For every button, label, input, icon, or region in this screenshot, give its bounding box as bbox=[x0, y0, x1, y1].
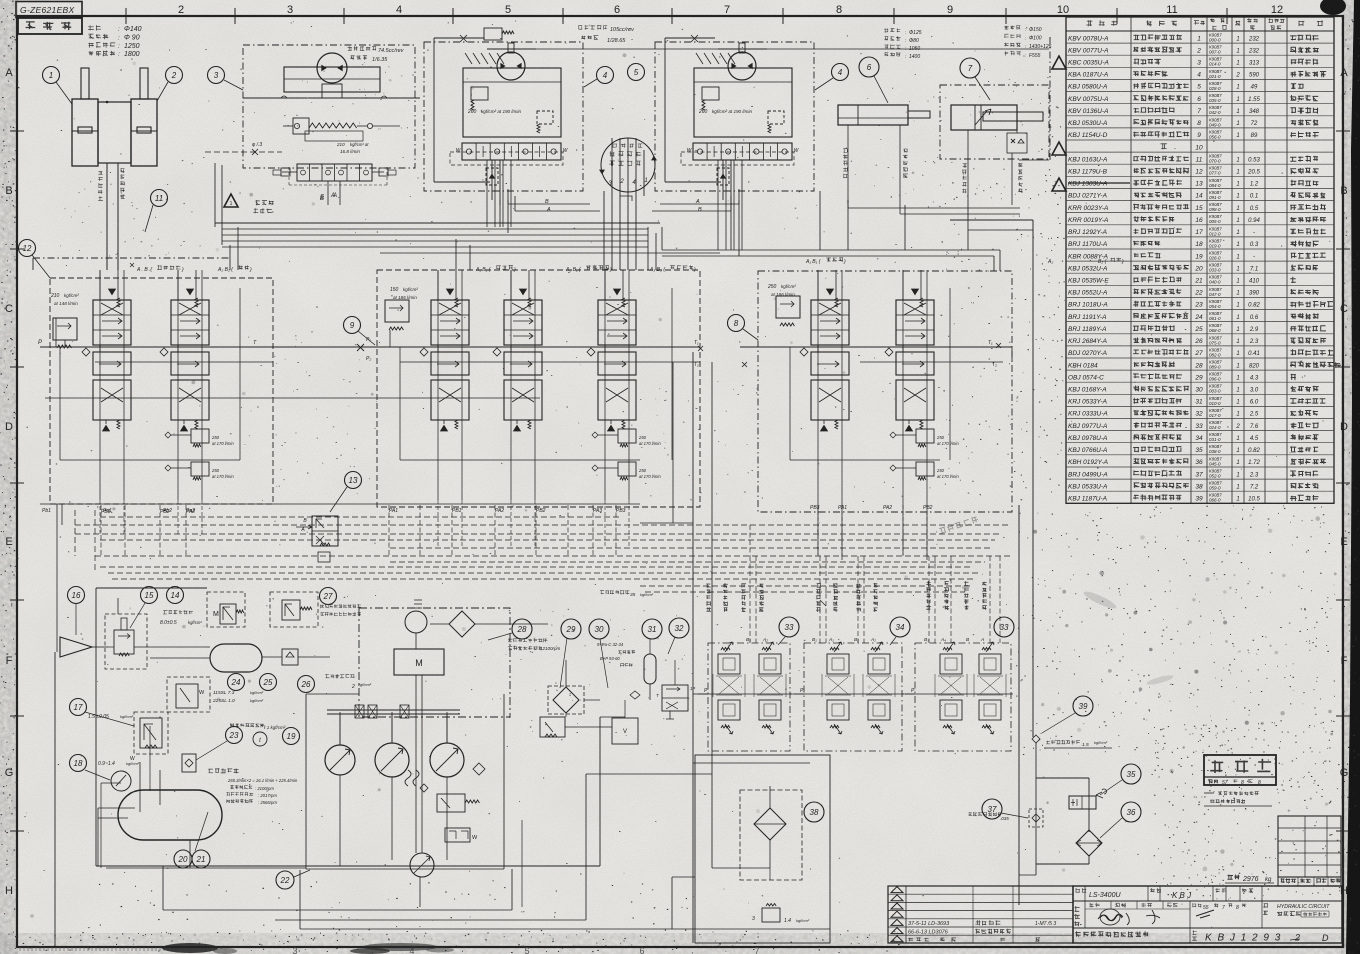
svg-text:Φ150: Φ150 bbox=[1029, 27, 1042, 33]
svg-text:T₂: T₂ bbox=[694, 362, 699, 368]
balloon 23 bbox=[226, 727, 243, 744]
balloon 39 bbox=[1073, 696, 1093, 716]
svg-text:kgf/cm²: kgf/cm² bbox=[64, 293, 79, 298]
svg-text:250: 250 bbox=[638, 468, 647, 473]
relief line box 35-37 bbox=[1019, 778, 1089, 875]
svg-text:1: 1 bbox=[230, 201, 233, 207]
flexible coupling bbox=[405, 763, 485, 792]
svg-text:PB1: PB1 bbox=[101, 509, 111, 515]
svg-text:313: 313 bbox=[1249, 61, 1260, 67]
svg-text:kgf/cm²: kgf/cm² bbox=[250, 698, 264, 703]
svg-text:KRJ 2684Y-A: KRJ 2684Y-A bbox=[1068, 338, 1107, 345]
svg-text:A: A bbox=[300, 527, 305, 533]
svg-text:22: 22 bbox=[1194, 290, 1203, 297]
svg-text:1: 1 bbox=[1236, 339, 1239, 345]
svg-text:PB3: PB3 bbox=[616, 508, 626, 514]
svg-text:1: 1 bbox=[1236, 242, 1239, 248]
svg-text:P: P bbox=[38, 340, 42, 346]
svg-text:1250: 1250 bbox=[124, 43, 140, 50]
revision history table bbox=[888, 886, 1073, 943]
svg-text:K B J: K B J bbox=[1172, 891, 1192, 900]
svg-text:KBV 0077U-A: KBV 0077U-A bbox=[1068, 47, 1108, 54]
svg-text:KBJ 0552U-A: KBJ 0552U-A bbox=[1068, 290, 1107, 297]
manifold L port labels bbox=[42, 508, 195, 514]
balloon 3 bbox=[208, 67, 225, 84]
svg-text:035-0: 035-0 bbox=[1209, 98, 1221, 103]
svg-text:BRJ 1292Y-A: BRJ 1292Y-A bbox=[1068, 229, 1107, 236]
svg-text:H: H bbox=[1340, 885, 1348, 897]
cracking pressure note 2 bbox=[325, 674, 372, 690]
svg-text:at 186 l/min: at 186 l/min bbox=[771, 292, 795, 297]
svg-text:250: 250 bbox=[936, 468, 945, 473]
svg-text:33: 33 bbox=[1000, 623, 1009, 632]
svg-text:038-0: 038-0 bbox=[1209, 449, 1221, 454]
svg-text:1: 1 bbox=[1236, 436, 1239, 442]
boom cylinder 2 bbox=[131, 68, 157, 166]
balloon 13 bbox=[345, 472, 362, 489]
svg-text:1: 1 bbox=[1236, 170, 1239, 176]
svg-text:17: 17 bbox=[1195, 229, 1203, 236]
svg-text:33: 33 bbox=[785, 623, 794, 632]
tee 19 bbox=[253, 732, 267, 746]
svg-text:A: A bbox=[980, 637, 984, 643]
svg-text:A₂: A₂ bbox=[1047, 259, 1053, 265]
manifold R bus lines bbox=[740, 270, 1012, 505]
svg-text:3.0: 3.0 bbox=[1250, 387, 1259, 393]
svg-text:Φ80: Φ80 bbox=[909, 38, 919, 44]
leader 29 bbox=[560, 638, 567, 688]
balloon 33a bbox=[779, 617, 799, 637]
svg-text:B₂: B₂ bbox=[854, 637, 859, 643]
svg-text:040-0: 040-0 bbox=[1209, 280, 1221, 285]
wire right side returns bbox=[818, 505, 927, 560]
balloon 2 bbox=[166, 67, 183, 84]
balloon 12 bbox=[19, 240, 36, 257]
svg-text:9: 9 bbox=[350, 321, 355, 330]
leader 35 bbox=[1100, 780, 1122, 795]
svg-text:20: 20 bbox=[178, 855, 188, 864]
svg-text:37: 37 bbox=[988, 805, 997, 814]
svg-text:21: 21 bbox=[196, 855, 206, 864]
balloon 15 bbox=[141, 587, 158, 604]
svg-text:16: 16 bbox=[72, 591, 81, 600]
balloon 37 bbox=[982, 799, 1002, 819]
left manifold inlet relief bbox=[53, 318, 77, 348]
svg-text:24: 24 bbox=[231, 678, 241, 687]
svg-text:): ) bbox=[181, 267, 184, 273]
svg-text:18: 18 bbox=[74, 759, 83, 768]
svg-text:250: 250 bbox=[211, 468, 220, 473]
svg-text:BRJ 1018U-A: BRJ 1018U-A bbox=[1068, 302, 1108, 309]
svg-text:57: 57 bbox=[1222, 780, 1228, 786]
svg-text:7: 7 bbox=[968, 64, 973, 73]
svg-text:4.5: 4.5 bbox=[1250, 436, 1259, 442]
svg-text:1: 1 bbox=[1236, 121, 1239, 127]
svg-text:1: 1 bbox=[1236, 387, 1239, 393]
cylinder center block bbox=[98, 101, 131, 270]
svg-text:A₄: A₄ bbox=[940, 637, 946, 643]
svg-text:KBV 0078U-A: KBV 0078U-A bbox=[1068, 35, 1108, 42]
oil cooler 25 bbox=[150, 644, 262, 672]
svg-text:): ) bbox=[693, 267, 696, 273]
leader 13 bbox=[330, 487, 347, 512]
svg-text:66-6-13 LD3076: 66-6-13 LD3076 bbox=[908, 930, 949, 936]
svg-text:A₁ B₁ (: A₁ B₁ ( bbox=[475, 267, 492, 273]
arm cylinder spec text bbox=[1004, 25, 1052, 59]
svg-text:3: 3 bbox=[1197, 60, 1201, 67]
svg-text:1: 1 bbox=[1236, 133, 1239, 139]
balloon 17 bbox=[70, 699, 87, 716]
svg-text:A: A bbox=[695, 199, 700, 205]
svg-text:LS-3400U: LS-3400U bbox=[1089, 892, 1121, 899]
svg-text:8: 8 bbox=[836, 4, 842, 16]
svg-text:A₃ B₃ (: A₃ B₃ ( bbox=[649, 267, 666, 273]
svg-text:KRR 0023Y-A: KRR 0023Y-A bbox=[1068, 205, 1108, 212]
power unit outer frame bbox=[55, 588, 600, 947]
svg-text:1800: 1800 bbox=[124, 51, 140, 58]
svg-text:5: 5 bbox=[1197, 84, 1201, 91]
svg-text:G-ZE621EBX: G-ZE621EBX bbox=[20, 5, 75, 15]
svg-text:061-0: 061-0 bbox=[1209, 316, 1221, 321]
svg-text:10: 10 bbox=[1195, 144, 1203, 151]
svg-text:27: 27 bbox=[1194, 350, 1203, 357]
svg-text:B: B bbox=[5, 185, 12, 197]
manifold C station 2 bbox=[493, 270, 542, 431]
svg-text:25: 25 bbox=[263, 678, 273, 687]
svg-text:T₁: T₁ bbox=[988, 340, 993, 346]
svg-text:): ) bbox=[249, 267, 252, 273]
wire bank outlet routing bbox=[508, 189, 739, 213]
svg-text:1: 1 bbox=[1197, 35, 1201, 42]
svg-text:1: 1 bbox=[1236, 109, 1239, 115]
drain box boundary bbox=[695, 755, 830, 943]
svg-text:HYDRAULIC CIRCUIT: HYDRAULIC CIRCUIT bbox=[1277, 904, 1330, 910]
leader 8 bbox=[743, 329, 758, 340]
svg-text:KBJ 0535W-E: KBJ 0535W-E bbox=[1068, 278, 1109, 285]
svg-text:082-0: 082-0 bbox=[1209, 352, 1221, 357]
center manifold inlet relief bbox=[385, 300, 409, 330]
svg-text:1: 1 bbox=[1236, 448, 1239, 454]
svg-text:kgf/cm²: kgf/cm² bbox=[358, 682, 372, 687]
bypass check 38b bbox=[752, 904, 810, 925]
svg-text:077-0: 077-0 bbox=[1209, 171, 1221, 176]
svg-text:KBJ 0580U-A: KBJ 0580U-A bbox=[1068, 84, 1107, 91]
svg-text:7.6: 7.6 bbox=[1250, 424, 1259, 430]
svg-text:084-0: 084-0 bbox=[1209, 183, 1221, 188]
orifice 37 bbox=[968, 809, 1043, 827]
svg-text:1: 1 bbox=[1236, 363, 1239, 369]
svg-text:D: D bbox=[1340, 421, 1348, 433]
svg-text:2: 2 bbox=[1294, 933, 1300, 943]
arm cylinder boundary bbox=[940, 85, 1049, 159]
svg-text:590: 590 bbox=[1249, 73, 1260, 79]
svg-text:7: 7 bbox=[724, 4, 730, 16]
center manifold relief spec bbox=[390, 287, 418, 300]
gear W valve bbox=[445, 828, 478, 842]
svg-text:250: 250 bbox=[638, 435, 647, 440]
svg-text:KBC 0035U-A: KBC 0035U-A bbox=[1068, 60, 1109, 67]
svg-text:33: 33 bbox=[1195, 423, 1203, 430]
svg-text:045-0: 045-0 bbox=[1209, 461, 1221, 466]
svg-text:at 170 l/min: at 170 l/min bbox=[639, 474, 661, 479]
svg-text:KBA 0187U-A: KBA 0187U-A bbox=[1068, 72, 1108, 79]
svg-text:KRR 0019Y-A: KRR 0019Y-A bbox=[1068, 217, 1108, 224]
svg-text:55: 55 bbox=[1203, 905, 1209, 911]
svg-text:1: 1 bbox=[1236, 472, 1239, 478]
manifold C station 1 bbox=[420, 270, 469, 431]
wire top harness horizontals bbox=[215, 163, 720, 270]
svg-text:250: 250 bbox=[211, 435, 220, 440]
pilot shutoff valve 32 bbox=[630, 660, 695, 719]
svg-text:1.55: 1.55 bbox=[1248, 97, 1260, 103]
svg-text:-: - bbox=[1253, 230, 1255, 236]
swing pilot valve row bbox=[273, 164, 396, 205]
svg-text:PB2: PB2 bbox=[160, 509, 170, 515]
manifold C station 3 bbox=[587, 270, 661, 480]
svg-text:210: 210 bbox=[336, 142, 345, 147]
bypass check 26 bbox=[262, 649, 330, 665]
svg-text:27: 27 bbox=[323, 592, 333, 601]
svg-text:A . B .(: A . B .( bbox=[136, 267, 153, 273]
svg-text:4: 4 bbox=[838, 68, 843, 77]
svg-text:KBH 0192Y-A: KBH 0192Y-A bbox=[1068, 459, 1108, 466]
hikikae-zu stamp bbox=[1204, 755, 1276, 806]
svg-text:at 170 l/min: at 170 l/min bbox=[212, 474, 234, 479]
svg-text:031-0: 031-0 bbox=[1209, 437, 1221, 442]
manifold L station 1 bbox=[82, 270, 131, 431]
svg-text:B₂: B₂ bbox=[746, 637, 751, 643]
svg-text:1: 1 bbox=[1236, 194, 1239, 200]
svg-text:B×P 93-60: B×P 93-60 bbox=[600, 656, 620, 661]
svg-text:1: 1 bbox=[1236, 496, 1239, 502]
svg-text:KBH 0184: KBH 0184 bbox=[1068, 362, 1098, 369]
svg-text:PB1: PB1 bbox=[452, 508, 462, 514]
svg-text:K B J 1 2 9 3: K B J 1 2 9 3 bbox=[1205, 933, 1282, 944]
svg-text:BDJ 0270Y-A: BDJ 0270Y-A bbox=[1068, 350, 1107, 357]
svg-text:P₁: P₁ bbox=[366, 337, 371, 343]
svg-text:KBV 0136U-A: KBV 0136U-A bbox=[1068, 108, 1108, 115]
balloon 16 bbox=[68, 587, 85, 604]
svg-text:D: D bbox=[5, 421, 13, 433]
svg-text:13: 13 bbox=[1195, 181, 1203, 188]
bypass valve 29b bbox=[540, 717, 565, 737]
svg-text:W: W bbox=[472, 835, 478, 841]
svg-text:7.2: 7.2 bbox=[1250, 484, 1259, 490]
svg-text:35: 35 bbox=[630, 592, 636, 598]
svg-text:042-0: 042-0 bbox=[1209, 110, 1221, 115]
wire right harness bbox=[648, 191, 1000, 271]
svg-text:E: E bbox=[5, 536, 12, 548]
svg-text:066-0: 066-0 bbox=[1209, 498, 1221, 503]
svg-text:): ) bbox=[843, 259, 846, 265]
left manifold boundary bbox=[50, 278, 273, 504]
junction V valve bbox=[612, 700, 638, 744]
boom cylinder 1 bbox=[72, 68, 98, 166]
svg-text:74.5cc/rev: 74.5cc/rev bbox=[378, 48, 405, 54]
svg-text:105cc/rev: 105cc/rev bbox=[610, 27, 635, 33]
pilot cluster 1 (swing/arm) bbox=[698, 642, 792, 751]
svg-text:6: 6 bbox=[1197, 96, 1201, 103]
svg-text:1.4: 1.4 bbox=[784, 918, 791, 924]
leader 4a bbox=[584, 79, 597, 87]
svg-text:G: G bbox=[1340, 767, 1349, 779]
wire pump downcomers bbox=[487, 160, 742, 250]
drain lines bottom bbox=[55, 774, 830, 947]
balloon 5 bbox=[628, 64, 645, 81]
svg-text:1: 1 bbox=[1236, 279, 1239, 285]
left manifold relief spec bbox=[50, 293, 79, 306]
left manifold port note bbox=[130, 263, 184, 273]
procurement header row bbox=[1278, 877, 1341, 886]
svg-text:F: F bbox=[1341, 655, 1348, 667]
leader 7 bbox=[975, 77, 990, 100]
svg-text:37: 37 bbox=[1195, 471, 1203, 478]
svg-text:10.5: 10.5 bbox=[1248, 496, 1260, 502]
main pump 2 bbox=[375, 712, 409, 860]
svg-text:C: C bbox=[5, 303, 13, 315]
svg-text:8: 8 bbox=[1241, 780, 1244, 786]
balloon 4b bbox=[832, 64, 849, 81]
svg-text:BDJ 0271Y-A: BDJ 0271Y-A bbox=[1068, 193, 1107, 200]
svg-text:1: 1 bbox=[1236, 182, 1239, 188]
svg-text:059-0: 059-0 bbox=[1209, 486, 1221, 491]
manifold C bus lines bbox=[273, 270, 703, 500]
svg-text:32: 32 bbox=[1195, 411, 1203, 418]
inline filter diamond bbox=[430, 611, 520, 637]
svg-text:0.41: 0.41 bbox=[1248, 351, 1260, 357]
svg-text:115SL 7.3: 115SL 7.3 bbox=[213, 690, 235, 696]
leader 1 bbox=[56, 82, 72, 104]
svg-text:34: 34 bbox=[896, 623, 905, 632]
swing motor pump circle bbox=[317, 53, 347, 83]
svg-text:6: 6 bbox=[867, 63, 872, 72]
svg-text:32: 32 bbox=[675, 624, 684, 633]
svg-text:-: - bbox=[1253, 254, 1255, 260]
svg-text:kgf/cm²: kgf/cm² bbox=[403, 287, 418, 292]
svg-text:PB2: PB2 bbox=[923, 505, 933, 511]
svg-text:232: 232 bbox=[1248, 36, 1260, 42]
svg-text:F555: F555 bbox=[1029, 53, 1041, 59]
svg-text:9: 9 bbox=[1197, 132, 1201, 139]
svg-text:20: 20 bbox=[1194, 265, 1203, 272]
gas precharge note bbox=[600, 590, 654, 598]
svg-text:5: 5 bbox=[634, 68, 639, 77]
svg-text:F: F bbox=[6, 655, 13, 667]
svg-text:1: 1 bbox=[1236, 254, 1239, 260]
svg-text:210: 210 bbox=[50, 293, 60, 299]
svg-text:KBJ 0168Y-A: KBJ 0168Y-A bbox=[1068, 386, 1107, 393]
svg-text:P₂: P₂ bbox=[366, 356, 371, 362]
svg-text:007-0: 007-0 bbox=[1209, 50, 1221, 55]
svg-text:kgf/cm²: kgf/cm² bbox=[781, 284, 796, 289]
svg-text:8: 8 bbox=[1258, 780, 1261, 786]
upper small table bbox=[1278, 816, 1341, 877]
svg-text:2.3: 2.3 bbox=[1249, 472, 1259, 478]
svg-text:A₂ B₁ (: A₂ B₁ ( bbox=[565, 267, 582, 273]
svg-text:033-0: 033-0 bbox=[1209, 268, 1221, 273]
svg-text:1: 1 bbox=[1236, 303, 1239, 309]
svg-text:13: 13 bbox=[349, 476, 358, 485]
svg-text:Φ125: Φ125 bbox=[909, 30, 922, 36]
svg-text:PB2: PB2 bbox=[536, 508, 546, 514]
svg-text:1: 1 bbox=[1236, 291, 1239, 297]
arm cylinder check valves bbox=[1007, 130, 1027, 153]
svg-text:KBJ 0533U-A: KBJ 0533U-A bbox=[1068, 483, 1107, 490]
svg-text:8: 8 bbox=[1236, 905, 1239, 911]
svg-text:4: 4 bbox=[1197, 72, 1201, 79]
svg-text:098-0: 098-0 bbox=[1209, 207, 1221, 212]
svg-text:0.82: 0.82 bbox=[1248, 303, 1260, 309]
svg-text:A₂ B₂ (: A₂ B₂ ( bbox=[217, 267, 234, 273]
chain line top-left of manifolds bbox=[32, 258, 34, 270]
svg-text:096-0: 096-0 bbox=[1209, 377, 1221, 382]
weight note bbox=[1225, 875, 1274, 883]
svg-text:E: E bbox=[1340, 536, 1347, 548]
balloons 29 30 31 32 bbox=[561, 619, 581, 639]
svg-text:KBJ 0977U-A: KBJ 0977U-A bbox=[1068, 423, 1107, 430]
right manifold port notes bbox=[805, 257, 846, 265]
svg-text:7: 7 bbox=[1222, 905, 1225, 911]
svg-text:028-0: 028-0 bbox=[1209, 86, 1221, 91]
svg-text:31: 31 bbox=[1195, 399, 1203, 406]
svg-text:6: 6 bbox=[614, 4, 620, 16]
svg-text:3: 3 bbox=[287, 4, 293, 16]
line filter 36 bbox=[1076, 830, 1102, 856]
balloon 28 bbox=[512, 619, 532, 639]
svg-text:BRJ 1191Y-A: BRJ 1191Y-A bbox=[1068, 314, 1106, 321]
pilot cluster 2 (travel) bbox=[794, 642, 904, 751]
boom cylinder port labels bbox=[98, 168, 125, 201]
cylinder spec text bbox=[88, 25, 141, 58]
leader 31 bbox=[649, 639, 651, 654]
svg-text:1-M7 /5 3: 1-M7 /5 3 bbox=[1035, 921, 1056, 927]
svg-text:0.3: 0.3 bbox=[1250, 242, 1259, 248]
svg-text:A₁: A₁ bbox=[828, 637, 834, 643]
balloon 9 bbox=[344, 317, 361, 334]
corner drawing-number box bbox=[16, 2, 82, 18]
svg-text:9: 9 bbox=[947, 4, 953, 16]
svg-text:at 186 l/min: at 186 l/min bbox=[393, 295, 417, 300]
svg-text:at 170 l/min: at 170 l/min bbox=[937, 474, 959, 479]
svg-text:026-0: 026-0 bbox=[1209, 255, 1221, 260]
svg-text:T₁: T₁ bbox=[694, 340, 699, 346]
svg-text:1: 1 bbox=[1236, 412, 1239, 418]
svg-text:34: 34 bbox=[1195, 435, 1203, 442]
relief valve 27 bbox=[270, 592, 361, 627]
svg-text:12: 12 bbox=[23, 244, 32, 253]
leader 20 bbox=[195, 812, 208, 851]
pilot valve labels group 1 bbox=[706, 583, 768, 643]
svg-text:225SL 1.0: 225SL 1.0 bbox=[212, 698, 235, 704]
main pump unit 1 bbox=[424, 35, 583, 205]
suction strainer 16 bbox=[60, 637, 108, 657]
leader 30 bbox=[600, 639, 608, 688]
svg-text:38: 38 bbox=[1195, 483, 1203, 490]
svg-text:2976: 2976 bbox=[1242, 876, 1259, 883]
svg-text:2: 2 bbox=[178, 4, 184, 16]
svg-text:410: 410 bbox=[1249, 279, 1260, 285]
svg-text:1.5: 1.5 bbox=[1082, 742, 1089, 748]
svg-text:265.3/min×2 = 16.1 l/min + 225: 265.3/min×2 = 16.1 l/min + 225.4/min bbox=[227, 778, 298, 783]
svg-text:1: 1 bbox=[1236, 315, 1239, 321]
svg-text:091-0: 091-0 bbox=[1209, 195, 1221, 200]
svg-text:5: 5 bbox=[524, 946, 529, 954]
pilot signal bus bbox=[57, 504, 1010, 652]
svg-text:KBJ 1187U-A: KBJ 1187U-A bbox=[1068, 495, 1107, 502]
svg-text:14: 14 bbox=[1195, 193, 1203, 200]
right manifold relief spec bbox=[767, 284, 796, 297]
pilot downcomer dashes bbox=[750, 525, 1000, 643]
